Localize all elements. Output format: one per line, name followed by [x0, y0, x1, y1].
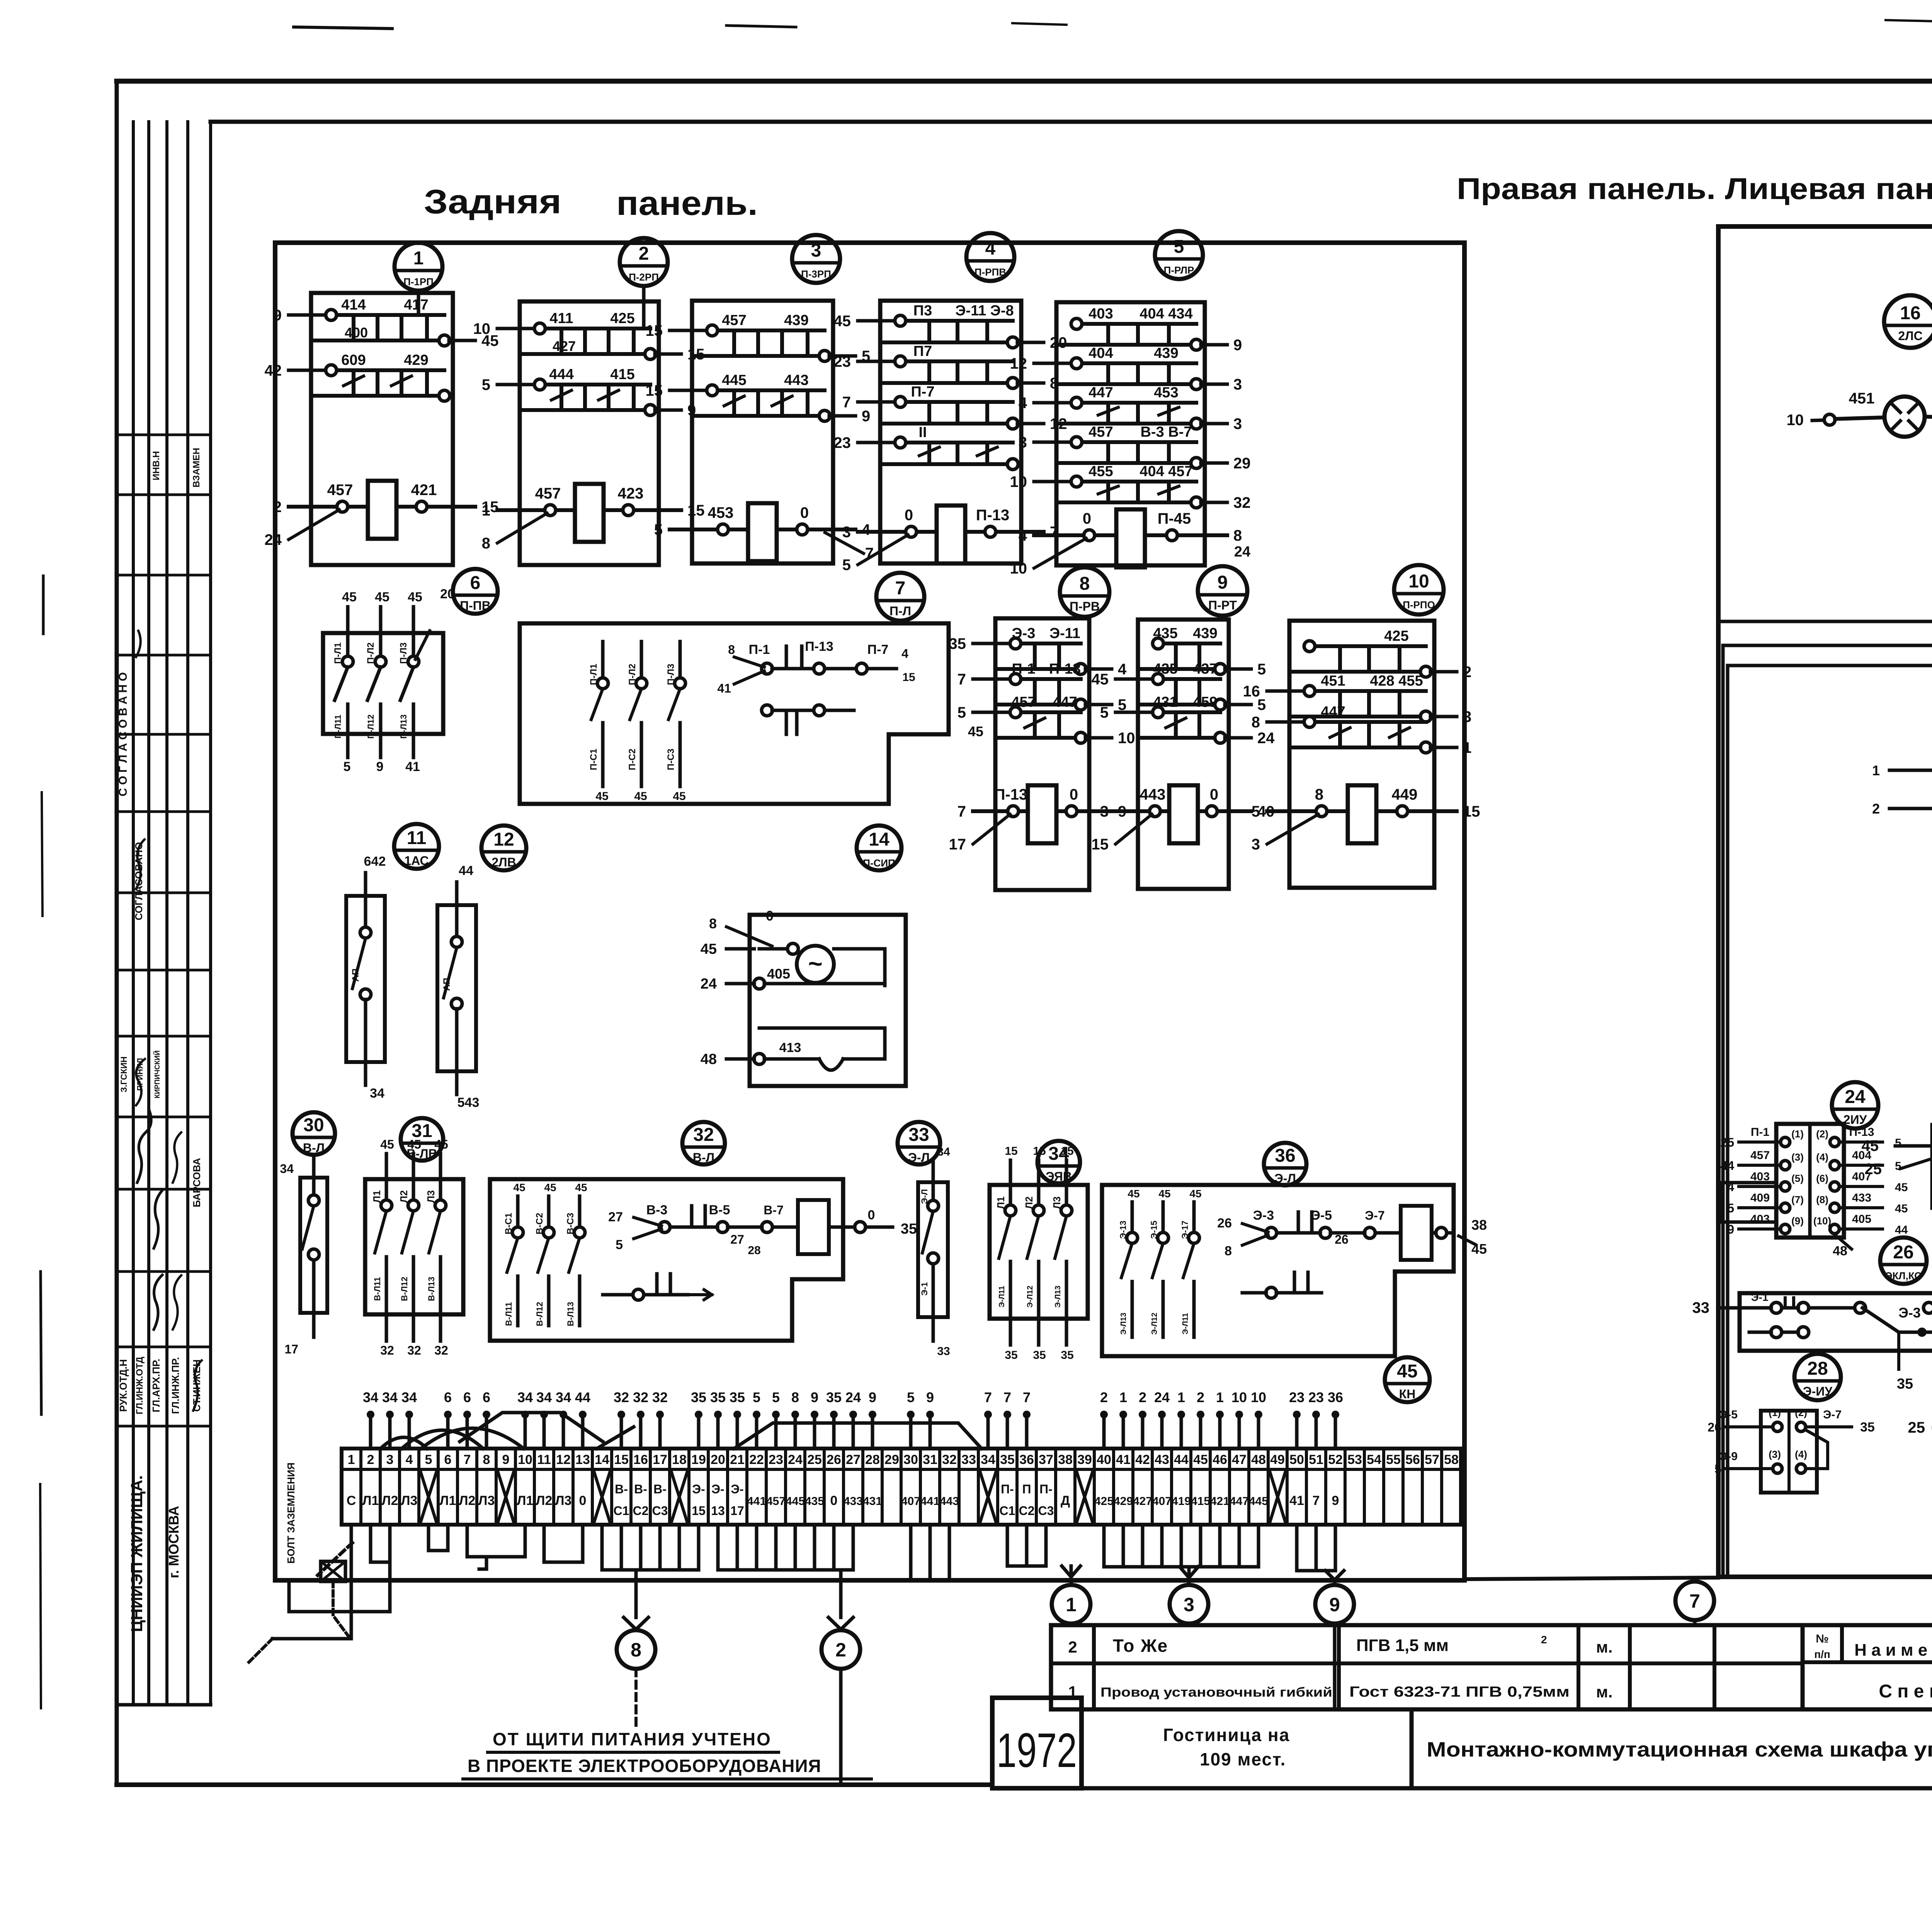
- svg-text:5: 5: [753, 1389, 760, 1405]
- svg-text:17: 17: [949, 836, 966, 853]
- svg-text:7: 7: [984, 1389, 992, 1405]
- svg-text:0: 0: [579, 1493, 587, 1508]
- svg-text:Э-5: Э-5: [1311, 1208, 1332, 1223]
- svg-text:453: 453: [1154, 385, 1178, 401]
- svg-text:П-: П-: [1039, 1482, 1053, 1496]
- svg-text:5: 5: [344, 759, 351, 774]
- svg-text:С2: С2: [1019, 1504, 1035, 1518]
- svg-text:39: 39: [1077, 1452, 1092, 1467]
- svg-text:1: 1: [1119, 1389, 1127, 1405]
- svg-text:7: 7: [895, 578, 906, 599]
- svg-text:10: 10: [1251, 1389, 1266, 1405]
- svg-text:45: 45: [595, 790, 608, 803]
- svg-text:457: 457: [535, 485, 561, 502]
- svg-text:РУК.ОТД.Н: РУК.ОТД.Н: [117, 1359, 129, 1412]
- svg-text:ИНВ.Н: ИНВ.Н: [151, 451, 162, 480]
- svg-text:34: 34: [363, 1389, 378, 1405]
- svg-text:10: 10: [518, 1452, 532, 1467]
- svg-text:8: 8: [483, 1452, 490, 1467]
- svg-text:27: 27: [846, 1452, 861, 1467]
- svg-text:9: 9: [1329, 1594, 1340, 1615]
- svg-text:32: 32: [380, 1343, 394, 1357]
- svg-text:4: 4: [1019, 527, 1027, 544]
- svg-text:23: 23: [1308, 1389, 1324, 1405]
- svg-text:45: 45: [380, 1137, 394, 1151]
- svg-text:429: 429: [404, 352, 428, 368]
- svg-text:447: 447: [1321, 704, 1345, 720]
- svg-text:10: 10: [473, 320, 491, 337]
- svg-text:34: 34: [981, 1452, 995, 1467]
- svg-text:Э-Л13: Э-Л13: [1054, 1285, 1062, 1307]
- svg-text:ГЛ.ИНЖ.ОТД: ГЛ.ИНЖ.ОТД: [134, 1357, 145, 1414]
- svg-text:444: 444: [549, 366, 573, 383]
- svg-text:419: 419: [1172, 1495, 1191, 1508]
- svg-text:Л1: Л1: [995, 1197, 1007, 1209]
- svg-text:13: 13: [711, 1504, 725, 1518]
- svg-text:9: 9: [273, 307, 282, 324]
- svg-text:7: 7: [464, 1452, 471, 1467]
- svg-text:10: 10: [1408, 571, 1429, 592]
- svg-text:7: 7: [842, 394, 851, 411]
- svg-text:28: 28: [865, 1452, 880, 1467]
- svg-text:П-РЛР: П-РЛР: [1164, 264, 1194, 276]
- svg-text:45: 45: [1158, 1188, 1170, 1200]
- svg-text:П-1: П-1: [1751, 1126, 1769, 1139]
- svg-text:45: 45: [634, 790, 647, 803]
- svg-text:32: 32: [614, 1389, 629, 1405]
- svg-text:32: 32: [693, 1125, 714, 1145]
- svg-text:7: 7: [1023, 1389, 1031, 1405]
- svg-text:441: 441: [747, 1495, 766, 1508]
- svg-text:45: 45: [701, 941, 717, 957]
- svg-text:34: 34: [937, 1146, 950, 1158]
- svg-text:35: 35: [691, 1389, 706, 1405]
- svg-text:Э-Л: Э-Л: [908, 1151, 930, 1164]
- svg-text:437: 437: [1193, 661, 1217, 677]
- svg-text:Э-11: Э-11: [1049, 625, 1080, 642]
- svg-text:Л2: Л2: [459, 1493, 476, 1508]
- svg-text:БАРСОВА: БАРСОВА: [191, 1158, 202, 1207]
- svg-text:11: 11: [537, 1452, 551, 1467]
- svg-text:П3: П3: [913, 303, 932, 319]
- svg-text:32: 32: [434, 1343, 448, 1357]
- svg-text:45: 45: [834, 313, 851, 330]
- svg-text:В-Л: В-Л: [303, 1141, 325, 1155]
- svg-text:32: 32: [652, 1389, 668, 1405]
- svg-text:5: 5: [482, 376, 490, 393]
- svg-text:409: 409: [1750, 1192, 1770, 1204]
- svg-text:1: 1: [1463, 739, 1471, 756]
- svg-text:29: 29: [1233, 455, 1251, 472]
- svg-text:15: 15: [1092, 836, 1109, 853]
- svg-text:21: 21: [730, 1452, 745, 1467]
- svg-text:2ИУ: 2ИУ: [1844, 1113, 1867, 1127]
- svg-text:Э-1: Э-1: [1751, 1291, 1769, 1303]
- svg-text:9: 9: [1332, 1493, 1339, 1508]
- svg-text:3: 3: [1463, 708, 1471, 725]
- svg-text:28: 28: [748, 1244, 760, 1257]
- svg-text:Монтажно-коммутационная схема: Монтажно-коммутационная схема шкафа упра…: [1427, 1738, 1932, 1761]
- svg-text:2: 2: [1100, 1389, 1108, 1405]
- svg-text:КИРПИЧСКИЙ: КИРПИЧСКИЙ: [153, 1050, 161, 1098]
- svg-text:0: 0: [800, 504, 809, 521]
- svg-text:2ЛС: 2ЛС: [1898, 329, 1922, 343]
- svg-text:1: 1: [1177, 1389, 1185, 1405]
- svg-text:457: 457: [766, 1495, 786, 1508]
- svg-text:36: 36: [1275, 1146, 1295, 1166]
- svg-text:В-Л12: В-Л12: [535, 1302, 544, 1326]
- svg-text:425: 425: [1094, 1495, 1114, 1508]
- svg-text:Л3: Л3: [555, 1493, 572, 1508]
- svg-text:42: 42: [1135, 1452, 1150, 1467]
- svg-text:24: 24: [265, 531, 282, 548]
- svg-text:Л1: Л1: [440, 1493, 456, 1508]
- svg-text:35: 35: [1000, 1452, 1015, 1467]
- svg-text:13: 13: [575, 1452, 590, 1467]
- svg-text:34: 34: [370, 1086, 384, 1101]
- svg-text:Л3: Л3: [478, 1493, 495, 1508]
- svg-text:35: 35: [1005, 1349, 1017, 1362]
- svg-text:5: 5: [1257, 661, 1266, 678]
- svg-text:В-Л12: В-Л12: [400, 1277, 409, 1301]
- svg-text:(6): (6): [1816, 1173, 1828, 1184]
- svg-text:6: 6: [470, 573, 481, 593]
- svg-text:5: 5: [772, 1389, 780, 1405]
- svg-text:ВЗАМЕН: ВЗАМЕН: [191, 448, 202, 488]
- svg-text:47: 47: [1232, 1452, 1247, 1467]
- svg-text:32: 32: [1233, 494, 1251, 511]
- svg-text:443: 443: [784, 372, 808, 388]
- svg-text:П: П: [1022, 1482, 1031, 1496]
- svg-text:7: 7: [1003, 1389, 1011, 1405]
- svg-text:П-13: П-13: [994, 786, 1028, 803]
- svg-text:22: 22: [749, 1452, 764, 1467]
- svg-text:Э-9: Э-9: [1719, 1450, 1738, 1463]
- svg-text:В-: В-: [634, 1482, 647, 1496]
- svg-text:5: 5: [957, 704, 966, 721]
- svg-text:34: 34: [401, 1389, 417, 1405]
- svg-text:30: 30: [303, 1115, 324, 1135]
- svg-text:ГЛ.АРХ.ПР.: ГЛ.АРХ.ПР.: [150, 1359, 162, 1413]
- svg-text:26: 26: [827, 1452, 841, 1467]
- svg-text:~: ~: [808, 950, 822, 977]
- svg-text:457: 457: [722, 312, 746, 329]
- svg-text:(7): (7): [1791, 1194, 1804, 1205]
- svg-text:425: 425: [610, 310, 634, 327]
- svg-text:З.ГСКИН: З.ГСКИН: [119, 1056, 129, 1092]
- svg-text:433: 433: [1852, 1192, 1871, 1204]
- svg-text:2: 2: [835, 1639, 846, 1661]
- svg-text:Э-Л12: Э-Л12: [1150, 1312, 1159, 1335]
- svg-text:Э-15: Э-15: [1149, 1220, 1159, 1239]
- svg-text:Э-7: Э-7: [1365, 1209, 1384, 1222]
- svg-text:435: 435: [1153, 661, 1177, 677]
- svg-text:26: 26: [1708, 1420, 1721, 1434]
- svg-text:В-Л: В-Л: [693, 1151, 714, 1164]
- svg-text:П-РПО: П-РПО: [1403, 599, 1435, 611]
- svg-text:8: 8: [1315, 786, 1323, 803]
- svg-text:Э-: Э-: [711, 1482, 724, 1496]
- svg-text:42: 42: [265, 362, 282, 379]
- svg-text:415: 415: [1191, 1495, 1210, 1508]
- svg-text:48: 48: [1251, 1452, 1266, 1467]
- svg-text:45: 45: [673, 790, 685, 803]
- svg-text:32: 32: [942, 1452, 957, 1467]
- svg-text:451: 451: [1849, 390, 1875, 407]
- svg-text:П-13: П-13: [1049, 661, 1081, 677]
- svg-text:439: 439: [1193, 625, 1217, 642]
- svg-text:421: 421: [1210, 1495, 1230, 1508]
- svg-text:0: 0: [1210, 786, 1218, 803]
- svg-text:431: 431: [1153, 694, 1177, 710]
- svg-text:51: 51: [1309, 1452, 1323, 1467]
- svg-text:9: 9: [502, 1452, 510, 1467]
- svg-text:8: 8: [1080, 574, 1090, 594]
- svg-text:41: 41: [717, 681, 731, 695]
- svg-text:5: 5: [1714, 1462, 1721, 1476]
- svg-text:2: 2: [1463, 664, 1471, 681]
- svg-text:24: 24: [1154, 1389, 1170, 1405]
- svg-text:9: 9: [926, 1389, 934, 1405]
- svg-text:В-5: В-5: [709, 1203, 730, 1217]
- svg-text:П-Л13: П-Л13: [399, 714, 408, 739]
- svg-text:3: 3: [1252, 836, 1260, 853]
- svg-text:109 мест.: 109 мест.: [1200, 1749, 1286, 1769]
- svg-text:15: 15: [646, 322, 663, 339]
- svg-text:431: 431: [863, 1495, 882, 1508]
- svg-text:405: 405: [1852, 1213, 1871, 1226]
- svg-text:С2: С2: [633, 1504, 649, 1518]
- svg-text:0: 0: [905, 507, 913, 524]
- svg-text:26: 26: [1893, 1242, 1913, 1263]
- svg-text:45: 45: [408, 590, 422, 604]
- svg-text:0: 0: [868, 1208, 875, 1222]
- svg-text:ЦНИИЭП ЖИЛИЩА.: ЦНИИЭП ЖИЛИЩА.: [128, 1475, 146, 1632]
- svg-text:25: 25: [1865, 1161, 1882, 1178]
- svg-text:5: 5: [654, 521, 663, 538]
- svg-text:421: 421: [411, 482, 437, 499]
- svg-text:Э-Л12: Э-Л12: [1026, 1285, 1034, 1307]
- svg-text:П-1: П-1: [1012, 661, 1035, 677]
- svg-text:457: 457: [1750, 1149, 1770, 1162]
- svg-text:441: 441: [920, 1495, 940, 1508]
- svg-text:С1: С1: [614, 1504, 629, 1518]
- svg-text:46: 46: [1213, 1452, 1227, 1467]
- svg-text:П-13: П-13: [976, 507, 1010, 524]
- svg-text:П-2РП: П-2РП: [629, 271, 659, 283]
- svg-text:2: 2: [367, 1452, 374, 1467]
- svg-text:5: 5: [907, 1389, 915, 1405]
- svg-text:17: 17: [284, 1342, 298, 1356]
- svg-text:Д: Д: [1061, 1493, 1070, 1508]
- svg-text:№: №: [1816, 1632, 1828, 1645]
- svg-text:В-3 В-7: В-3 В-7: [1140, 424, 1192, 440]
- svg-text:17: 17: [653, 1452, 667, 1467]
- svg-text:ЭКЛ,КС: ЭКЛ,КС: [1885, 1270, 1922, 1282]
- svg-text:15: 15: [1033, 1145, 1046, 1158]
- svg-text:Э-3: Э-3: [1898, 1305, 1921, 1321]
- svg-text:Л1: Л1: [517, 1493, 534, 1508]
- svg-text:58: 58: [1444, 1452, 1459, 1467]
- svg-text:8: 8: [631, 1639, 641, 1661]
- svg-text:425: 425: [1384, 628, 1408, 644]
- svg-text:29: 29: [884, 1452, 899, 1467]
- svg-text:9: 9: [1218, 572, 1228, 593]
- svg-text:С О Г Л А С О В А Н О: С О Г Л А С О В А Н О: [117, 672, 129, 796]
- svg-text:1: 1: [1066, 1594, 1077, 1615]
- svg-text:26: 26: [1335, 1232, 1349, 1246]
- svg-text:В-Л13: В-Л13: [566, 1302, 575, 1326]
- svg-text:10: 10: [1118, 730, 1135, 747]
- svg-text:П-ПВ: П-ПВ: [460, 599, 491, 613]
- svg-text:3: 3: [386, 1452, 394, 1467]
- svg-text:П-Л1: П-Л1: [588, 664, 599, 685]
- svg-text:50: 50: [1289, 1452, 1304, 1467]
- svg-text:417: 417: [404, 297, 428, 313]
- svg-text:33: 33: [937, 1345, 950, 1358]
- svg-text:457: 457: [1011, 694, 1036, 710]
- svg-text:443: 443: [940, 1495, 959, 1508]
- svg-text:П-С2: П-С2: [627, 749, 638, 770]
- svg-text:10: 10: [1787, 412, 1804, 429]
- svg-text:34: 34: [556, 1389, 571, 1405]
- svg-text:0: 0: [1083, 510, 1091, 527]
- svg-text:С1: С1: [1000, 1504, 1015, 1518]
- svg-text:403: 403: [1088, 306, 1113, 322]
- svg-text:Э-11 Э-8: Э-11 Э-8: [955, 303, 1014, 319]
- svg-text:2ЛВ: 2ЛВ: [492, 855, 516, 869]
- svg-text:3: 3: [1233, 376, 1242, 393]
- svg-text:П-Л12: П-Л12: [366, 714, 376, 739]
- svg-text:439: 439: [1154, 345, 1178, 361]
- svg-text:П-Л2: П-Л2: [366, 642, 376, 664]
- svg-text:9: 9: [376, 759, 384, 774]
- svg-text:2: 2: [1139, 1389, 1146, 1405]
- svg-text:413: 413: [779, 1040, 801, 1055]
- svg-text:В-: В-: [653, 1482, 667, 1496]
- svg-text:45: 45: [1895, 1202, 1908, 1215]
- svg-text:455: 455: [1088, 463, 1113, 480]
- svg-text:Л3: Л3: [425, 1190, 437, 1203]
- svg-text:5: 5: [842, 557, 851, 574]
- svg-text:30: 30: [903, 1452, 918, 1467]
- svg-text:37: 37: [1039, 1452, 1053, 1467]
- svg-text:П-Л3: П-Л3: [666, 664, 676, 685]
- svg-text:451: 451: [1321, 673, 1345, 689]
- svg-text:С п е ц и ф и к а ц и я: С п е ц и ф и к а ц и я: [1879, 1681, 1932, 1702]
- svg-text:20: 20: [440, 587, 455, 601]
- svg-text:453: 453: [708, 504, 734, 521]
- svg-text:П-Л: П-Л: [889, 604, 911, 618]
- svg-text:33: 33: [1692, 1299, 1710, 1316]
- svg-text:БОЛТ ЗАЗЕМЛЕНИЯ: БОЛТ ЗАЗЕМЛЕНИЯ: [285, 1462, 297, 1564]
- svg-text:4: 4: [901, 647, 908, 660]
- svg-text:В-С1: В-С1: [503, 1213, 514, 1234]
- svg-text:17: 17: [730, 1504, 744, 1518]
- svg-text:45: 45: [575, 1181, 587, 1193]
- svg-text:1: 1: [1216, 1389, 1224, 1405]
- svg-text:То Же: То Же: [1113, 1636, 1168, 1656]
- svg-text:В-3: В-3: [646, 1203, 668, 1217]
- svg-text:34: 34: [517, 1389, 533, 1405]
- svg-text:16: 16: [1243, 683, 1260, 700]
- svg-text:439: 439: [784, 312, 808, 329]
- svg-text:44: 44: [1174, 1452, 1189, 1467]
- svg-text:С: С: [347, 1493, 356, 1508]
- svg-text:1АС: 1АС: [404, 854, 429, 868]
- svg-text:Э-5: Э-5: [1719, 1408, 1738, 1421]
- svg-text:45: 45: [544, 1181, 556, 1193]
- svg-text:35: 35: [1033, 1349, 1046, 1362]
- svg-text:панель.: панель.: [616, 184, 758, 222]
- svg-text:35: 35: [1897, 1376, 1913, 1392]
- svg-text:4: 4: [1118, 661, 1127, 678]
- svg-text:П-Л11: П-Л11: [333, 715, 343, 739]
- svg-text:1972: 1972: [997, 1724, 1077, 1777]
- svg-text:(8): (8): [1816, 1194, 1828, 1205]
- svg-text:АП: АП: [350, 969, 361, 982]
- svg-text:Э-13: Э-13: [1118, 1220, 1128, 1239]
- svg-text:5: 5: [1252, 803, 1260, 820]
- svg-text:44: 44: [1895, 1224, 1908, 1236]
- svg-text:п/п: п/п: [1814, 1648, 1830, 1660]
- svg-text:10: 10: [1010, 473, 1027, 490]
- svg-text:Л2: Л2: [382, 1493, 398, 1508]
- svg-text:6: 6: [444, 1389, 452, 1405]
- svg-text:Л3: Л3: [401, 1493, 418, 1508]
- svg-text:35: 35: [826, 1389, 842, 1405]
- svg-text:33: 33: [908, 1125, 929, 1145]
- svg-text:Л2: Л2: [1023, 1197, 1035, 1209]
- svg-text:6: 6: [463, 1389, 471, 1405]
- svg-text:П7: П7: [913, 343, 932, 359]
- svg-text:II: II: [918, 424, 927, 441]
- svg-text:445: 445: [722, 372, 746, 388]
- svg-text:24: 24: [1234, 544, 1250, 560]
- svg-text:Э-: Э-: [731, 1482, 743, 1496]
- svg-text:6: 6: [444, 1452, 452, 1467]
- svg-text:АП: АП: [442, 978, 452, 991]
- svg-text:Л1: Л1: [371, 1190, 383, 1203]
- svg-text:15: 15: [1463, 803, 1480, 820]
- svg-text:7: 7: [957, 803, 966, 820]
- svg-text:48: 48: [1833, 1244, 1847, 1258]
- svg-text:447: 447: [1230, 1495, 1249, 1508]
- svg-text:423: 423: [618, 485, 644, 502]
- svg-text:40: 40: [1097, 1452, 1111, 1467]
- svg-text:3: 3: [811, 240, 821, 261]
- svg-text:3: 3: [842, 524, 851, 541]
- svg-text:8: 8: [1225, 1244, 1232, 1258]
- svg-text:36: 36: [1328, 1389, 1343, 1405]
- svg-text:4: 4: [1019, 395, 1027, 412]
- svg-text:П-1РП: П-1РП: [403, 276, 434, 288]
- svg-text:П-3РП: П-3РП: [801, 268, 831, 280]
- svg-text:54: 54: [1367, 1452, 1381, 1467]
- svg-text:25: 25: [1720, 1135, 1734, 1149]
- svg-text:55: 55: [1386, 1452, 1401, 1467]
- svg-text:П-1: П-1: [749, 642, 770, 657]
- svg-text:Э-Л11: Э-Л11: [998, 1286, 1006, 1307]
- svg-text:45: 45: [1193, 1452, 1208, 1467]
- svg-text:П-7: П-7: [867, 642, 889, 657]
- svg-text:24: 24: [1257, 730, 1275, 747]
- svg-text:407: 407: [901, 1495, 920, 1508]
- svg-text:28: 28: [1807, 1358, 1828, 1379]
- svg-text:27: 27: [730, 1232, 744, 1246]
- svg-text:18: 18: [672, 1452, 687, 1467]
- svg-text:Л1: Л1: [362, 1493, 379, 1508]
